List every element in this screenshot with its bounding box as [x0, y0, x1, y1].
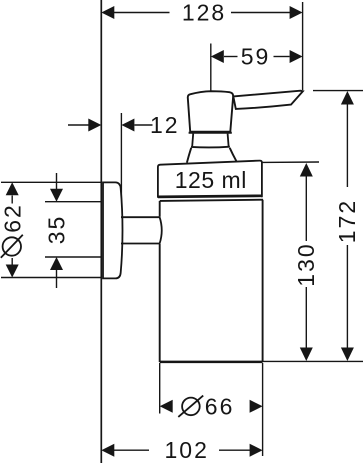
svg-text:125 ml: 125 ml [175, 167, 247, 193]
svg-text:128: 128 [182, 0, 226, 26]
svg-text:130: 130 [293, 242, 319, 286]
pump flare [187, 148, 237, 163]
dimension 59 [211, 44, 303, 94]
svg-text:12: 12 [150, 112, 180, 138]
mounting arm [121, 217, 162, 244]
svg-text:62: 62 [0, 203, 25, 233]
wall plate [103, 182, 123, 278]
svg-text:35: 35 [43, 215, 69, 245]
pump head bottom line [189, 132, 232, 134]
bottle cap band [158, 161, 262, 198]
pump lever [233, 91, 303, 109]
svg-text:102: 102 [165, 437, 209, 463]
svg-text:59: 59 [241, 44, 271, 70]
svg-text:66: 66 [205, 393, 235, 419]
pump collar [191, 134, 230, 148]
svg-text:172: 172 [334, 199, 360, 243]
dimension 102 [101, 437, 262, 463]
dimension 35 [43, 173, 101, 288]
pump head [188, 91, 233, 132]
dimension 128 [101, 0, 302, 26]
dimension diameter 66 [160, 363, 263, 456]
bottle body [160, 200, 263, 362]
bottom extension line [263, 360, 363, 362]
extension line spout tip vertical [302, 2, 304, 90]
dimension 130 [262, 162, 319, 361]
wall line [100, 0, 102, 463]
band bottom edge [158, 196, 262, 197]
dimension 172 [313, 91, 363, 361]
dimension 12 [68, 112, 180, 207]
dimension diameter 62 [0, 182, 101, 277]
